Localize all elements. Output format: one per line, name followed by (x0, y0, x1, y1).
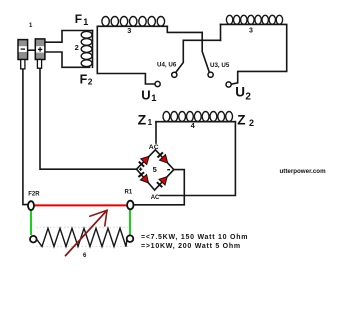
svg-text:2: 2 (249, 118, 254, 128)
svg-text:1: 1 (29, 23, 33, 29)
svg-text:1: 1 (148, 118, 153, 127)
svg-text:Z: Z (237, 113, 245, 128)
svg-text:F: F (80, 72, 88, 86)
svg-text:F: F (75, 12, 82, 26)
svg-text:2: 2 (245, 91, 251, 102)
svg-text:Z: Z (138, 112, 147, 128)
svg-text:F2R: F2R (28, 192, 40, 198)
svg-text:6: 6 (83, 253, 87, 259)
svg-text:2: 2 (75, 43, 79, 52)
svg-text:AC: AC (149, 144, 159, 151)
svg-text:utterpower.com: utterpower.com (280, 168, 327, 175)
svg-text:U3, U5: U3, U5 (210, 62, 230, 69)
svg-text:1: 1 (83, 17, 88, 27)
svg-text:3: 3 (249, 28, 253, 35)
svg-text:3: 3 (127, 26, 131, 35)
svg-text:R1: R1 (125, 189, 133, 195)
svg-text:=<7.5KW, 150 Watt 10 Ohm: =<7.5KW, 150 Watt 10 Ohm (141, 234, 248, 241)
svg-text:5: 5 (153, 165, 157, 174)
svg-text:AC: AC (151, 195, 160, 201)
svg-text:1: 1 (151, 93, 157, 104)
svg-text:U4, U6: U4, U6 (157, 61, 177, 68)
svg-text:2: 2 (88, 77, 93, 87)
svg-text:=>10KW, 200 Watt 5 Ohm: =>10KW, 200 Watt 5 Ohm (141, 243, 241, 250)
svg-text:U: U (141, 87, 150, 102)
svg-text:U: U (235, 85, 245, 100)
